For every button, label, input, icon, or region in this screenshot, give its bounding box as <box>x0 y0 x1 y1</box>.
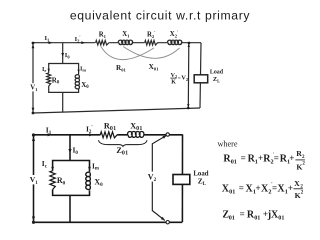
svg-text:X0: X0 <box>81 81 89 90</box>
svg-text:=: = <box>274 153 279 163</box>
svg-text:R0: R0 <box>57 176 66 187</box>
svg-text:Im: Im <box>80 66 86 73</box>
svg-text:+: + <box>289 153 294 163</box>
svg-text:I0: I0 <box>73 146 79 157</box>
svg-text:+: + <box>288 183 293 193</box>
svg-text:ZL: ZL <box>213 76 220 83</box>
svg-text:X1: X1 <box>122 31 130 38</box>
svg-text:I1: I1 <box>45 35 51 42</box>
svg-text:01: 01 <box>254 214 260 221</box>
svg-text:X: X <box>294 179 300 188</box>
svg-text:X2′: X2′ <box>170 30 179 39</box>
svg-text:=: = <box>240 209 245 219</box>
svg-text:2: 2 <box>302 155 305 160</box>
svg-text:ZL: ZL <box>198 177 207 188</box>
svg-text:equivalent circuit w.r.t prima: equivalent circuit w.r.t primary <box>70 9 251 23</box>
svg-text:X01: X01 <box>130 121 143 132</box>
svg-text:Z01: Z01 <box>116 146 128 157</box>
svg-text:2: 2 <box>301 191 304 196</box>
svg-text:where: where <box>218 139 238 148</box>
svg-text:=: = <box>241 153 246 163</box>
svg-text:+: + <box>256 183 261 193</box>
svg-text:K: K <box>171 79 176 85</box>
svg-text:R1: R1 <box>99 32 107 39</box>
svg-text:Load: Load <box>210 70 224 76</box>
svg-text:Ic: Ic <box>42 159 48 169</box>
svg-text:=: = <box>272 183 277 193</box>
svg-text:I1: I1 <box>46 125 52 136</box>
svg-text:01: 01 <box>229 188 235 195</box>
svg-text:2: 2 <box>302 162 305 167</box>
svg-text:X0: X0 <box>94 178 103 189</box>
svg-text:I2′: I2′ <box>86 124 93 135</box>
svg-text:R01: R01 <box>104 121 117 132</box>
svg-text:01: 01 <box>231 159 237 166</box>
svg-text:=: = <box>239 183 244 193</box>
svg-text:R01: R01 <box>116 64 127 72</box>
svg-text:X01: X01 <box>149 63 160 71</box>
svg-text:I0: I0 <box>65 52 71 59</box>
svg-text:R0: R0 <box>52 76 60 85</box>
svg-text:01: 01 <box>278 214 284 221</box>
svg-text:R2′: R2′ <box>147 30 156 39</box>
svg-text:01: 01 <box>229 214 235 221</box>
svg-text:Ie: Ie <box>42 66 46 73</box>
svg-text:Im: Im <box>92 162 99 171</box>
